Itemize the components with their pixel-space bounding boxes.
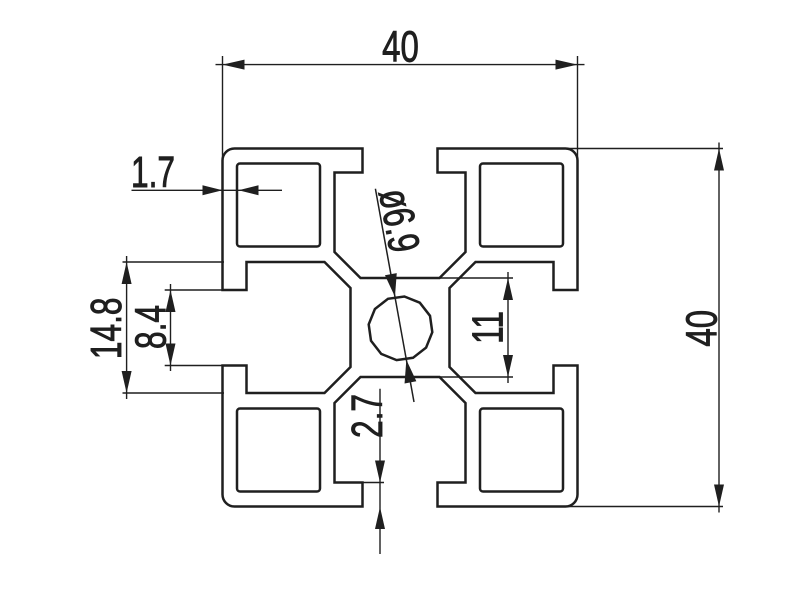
svg-text:ø6.9: ø6.9	[369, 185, 429, 256]
dimension 2.7 bottom lip	[341, 389, 384, 554]
chamber bottom-left	[237, 409, 320, 492]
svg-text:40: 40	[382, 23, 419, 72]
dimension 1.7 top-left wall	[132, 189, 283, 191]
dimension 8.4 left slot opening	[165, 284, 224, 371]
chamber top-right	[480, 164, 563, 247]
svg-text:14.8: 14.8	[82, 297, 131, 359]
svg-text:1.7: 1.7	[131, 148, 175, 197]
dimension 40 right	[567, 143, 723, 513]
chamber bottom-right	[480, 409, 563, 492]
svg-text:8.4: 8.4	[126, 305, 175, 349]
center hole polygon	[369, 297, 433, 361]
dimension diameter 6.9 leader	[375, 189, 414, 402]
svg-text:40: 40	[678, 310, 727, 347]
chamber top-left	[237, 164, 320, 247]
svg-text:11: 11	[463, 311, 512, 344]
dimension 14.8 left slot cavity	[123, 256, 225, 399]
dimension 40 top	[216, 56, 585, 162]
dimension 11 center core	[436, 272, 513, 383]
profile outline	[223, 149, 578, 507]
svg-text:2.7: 2.7	[343, 394, 392, 438]
